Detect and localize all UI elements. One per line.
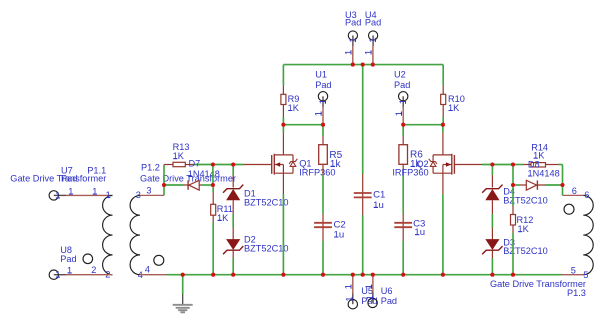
- resistor R14: [513, 143, 563, 168]
- svg-text:1: 1: [365, 295, 375, 300]
- junction ground at bus: [181, 273, 185, 277]
- junction D1 top at gate line: [231, 162, 235, 166]
- wire drain node horizontal right: [403, 124, 443, 126]
- wire R6 to C3: [402, 175, 404, 215]
- svg-text:1: 1: [314, 111, 324, 116]
- junction R14-D8 gate node: [511, 162, 515, 166]
- zener diode D1 BZT52C10: [223, 165, 288, 215]
- diode D8 1N4148: [513, 159, 563, 190]
- resistor R5: [319, 125, 343, 175]
- wire R14 corner down: [562, 165, 564, 186]
- junction D2 at bus: [231, 273, 235, 277]
- svg-text:1: 1: [68, 187, 73, 197]
- transformer P1.3 label: [490, 279, 586, 298]
- wire drain node horizontal: [283, 124, 323, 126]
- svg-text:K: K: [222, 213, 229, 223]
- svg-text:1: 1: [55, 270, 60, 280]
- svg-text:Pad: Pad: [365, 18, 381, 28]
- svg-text:5: 5: [571, 265, 576, 275]
- svg-text:N4148: N4148: [193, 169, 220, 179]
- resistor R6: [399, 125, 423, 175]
- wire C3 to bus: [402, 241, 404, 275]
- capacitor C3 1u: [394, 214, 425, 241]
- wire top bus: [283, 64, 443, 66]
- wire C2 to bus: [322, 241, 324, 275]
- ground symbol: [173, 275, 193, 313]
- pad U6: [364, 275, 397, 308]
- svg-text:Pad: Pad: [345, 18, 361, 28]
- mosfet Q2 IRFP360: [392, 154, 454, 178]
- junction R11 at bus: [211, 273, 215, 277]
- transformer P1.3 polarity dot: [564, 204, 574, 214]
- svg-text:4: 4: [145, 265, 150, 275]
- svg-text:u: u: [378, 200, 383, 211]
- svg-text:Gate Drive Transformer: Gate Drive Transformer: [10, 174, 106, 184]
- wire right rail upper: [442, 65, 444, 95]
- pad U2: [394, 70, 410, 125]
- svg-text:6: 6: [572, 186, 577, 196]
- svg-text:K: K: [453, 103, 460, 113]
- svg-text:1: 1: [344, 50, 354, 55]
- wire Q1 gate lead: [244, 164, 272, 166]
- svg-text:3: 3: [146, 185, 151, 195]
- svg-text:K: K: [293, 103, 300, 113]
- junction Q1 drain node: [281, 123, 285, 127]
- svg-text:6: 6: [584, 190, 589, 200]
- svg-text:1: 1: [364, 50, 374, 55]
- transformer P1.2 secondary winding: [130, 163, 160, 280]
- svg-text:IRFP360: IRFP360: [392, 167, 428, 177]
- wire to pin 6: [563, 185, 584, 195]
- junction D4 top at gate line: [490, 162, 494, 166]
- wire pin3 to node: [140, 165, 164, 196]
- svg-text:BZT52C10: BZT52C10: [503, 246, 547, 256]
- junction Q2 drain node: [441, 123, 445, 127]
- pad U5: [344, 275, 378, 309]
- wire Q2 gate lead: [454, 164, 482, 166]
- svg-text:BZT52C10: BZT52C10: [244, 198, 288, 208]
- wire D7-R13 vertical tie: [212, 165, 214, 186]
- junction U1-R5 node: [321, 123, 325, 127]
- zener diode D2 BZT52C10: [223, 228, 288, 275]
- svg-text:1: 1: [364, 284, 374, 289]
- svg-text:1: 1: [368, 37, 378, 42]
- junction Q2 source at bus: [441, 273, 445, 277]
- junction R13-D7 gate node: [211, 162, 215, 166]
- junction D8 right node: [560, 183, 564, 187]
- svg-text:1: 1: [345, 296, 355, 301]
- wire Q1 drain: [282, 125, 284, 155]
- svg-text:Pad: Pad: [394, 80, 410, 90]
- svg-text:u: u: [420, 227, 425, 238]
- junction U2-R6 node: [401, 123, 405, 127]
- junction D8-R12 node: [511, 183, 515, 187]
- wire D4-D3: [491, 214, 493, 228]
- wire Q2 source: [442, 173, 444, 275]
- capacitor C2 1u: [314, 214, 346, 241]
- svg-text:BZT52C10: BZT52C10: [244, 244, 288, 254]
- resistor R11: [211, 185, 233, 275]
- svg-text:u: u: [339, 230, 344, 241]
- svg-text:P1.3: P1.3: [567, 288, 586, 298]
- junction U6 at bus: [371, 273, 375, 277]
- svg-text:C1: C1: [373, 189, 385, 200]
- junction D3 at bus: [490, 273, 494, 277]
- pad U8: [49, 245, 112, 280]
- svg-text:N4148: N4148: [533, 169, 560, 179]
- svg-text:1: 1: [348, 37, 358, 42]
- junction D7-R11 node: [211, 183, 215, 187]
- junction Q1 source at bus: [281, 273, 285, 277]
- junction U5 at bus: [351, 273, 355, 277]
- svg-text:1: 1: [344, 284, 354, 289]
- wire left rail upper: [282, 65, 284, 95]
- junction C3 at bus: [401, 273, 405, 277]
- svg-text:K: K: [178, 151, 185, 161]
- resistor R12: [511, 185, 534, 275]
- svg-text:U2: U2: [394, 70, 406, 80]
- wire R5 to C2: [322, 175, 324, 215]
- svg-text:1: 1: [398, 99, 408, 104]
- svg-text:BZT52C10: BZT52C10: [503, 195, 547, 205]
- svg-text:K: K: [523, 224, 530, 234]
- wire ground bus: [140, 274, 583, 276]
- zener diode D3 BZT52C10: [482, 228, 548, 275]
- transformer P1.1 primary winding: [87, 166, 112, 280]
- wire Q1 source: [282, 173, 284, 275]
- transformer P1.1 polarity dot: [83, 254, 93, 264]
- pad U3: [344, 10, 362, 65]
- junction U4 at top bus: [371, 63, 375, 67]
- svg-text:1: 1: [67, 265, 72, 275]
- svg-text:D7: D7: [189, 158, 201, 168]
- wire R9 to drain node: [282, 117, 284, 125]
- svg-text:Pad: Pad: [381, 296, 397, 306]
- wire gate line right: [482, 164, 513, 166]
- junction D7 left node: [162, 183, 166, 187]
- svg-text:2: 2: [91, 265, 96, 275]
- svg-text:1: 1: [92, 187, 97, 197]
- junction C1 at bus: [361, 273, 365, 277]
- svg-text:U1: U1: [315, 70, 327, 80]
- zener diode D4 BZT52C10: [482, 165, 548, 215]
- svg-text:1: 1: [318, 99, 328, 104]
- svg-text:P1.2: P1.2: [141, 163, 160, 173]
- pad U7: [49, 166, 112, 201]
- junction C1 at top bus: [361, 63, 365, 67]
- wire gate line left: [194, 164, 244, 166]
- transformer P1.2 polarity dot: [154, 255, 164, 265]
- junction U3 at top bus: [351, 63, 355, 67]
- junction C2 at bus: [321, 273, 325, 277]
- svg-text:1: 1: [394, 111, 404, 116]
- resistor R10: [441, 94, 465, 117]
- svg-text:1: 1: [55, 190, 60, 200]
- wire R10 to drain node: [442, 117, 444, 125]
- wire R14-D8 vertical tie: [512, 165, 514, 186]
- transformer P1.3 winding: [571, 186, 593, 280]
- resistor R9: [281, 94, 300, 117]
- resistor R13: [164, 142, 194, 167]
- svg-text:Pad: Pad: [315, 80, 331, 90]
- mosfet Q1 IRFP360: [272, 154, 336, 178]
- pad U1: [314, 70, 332, 125]
- pad U4: [364, 10, 382, 65]
- svg-text:Pad: Pad: [60, 254, 76, 264]
- wire Q2 drain: [442, 125, 444, 155]
- wire D1-D2: [232, 214, 234, 228]
- svg-text:1: 1: [106, 190, 111, 200]
- diode D7 1N4148: [164, 158, 220, 190]
- svg-text:U6: U6: [381, 286, 393, 296]
- junction R12 at bus: [511, 273, 515, 277]
- capacitor C1 1u: [354, 65, 386, 275]
